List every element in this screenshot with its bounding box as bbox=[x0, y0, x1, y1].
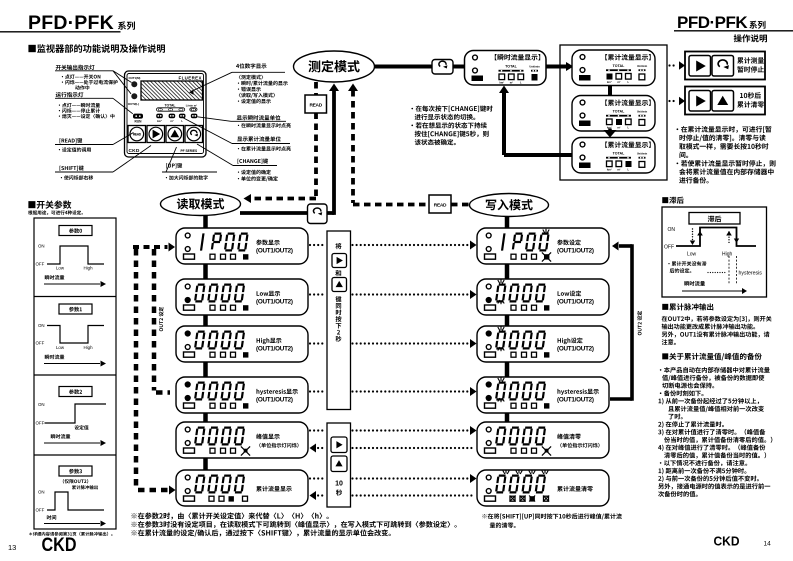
device key CHANGE bbox=[185, 126, 203, 143]
svg-text:km³: km³ bbox=[607, 168, 612, 172]
svg-text:m³: m³ bbox=[170, 119, 173, 123]
text 根据用途，可进行4种设定。 bbox=[28, 210, 83, 215]
callout READ key bbox=[55, 144, 113, 146]
text 累计流量显示 bbox=[256, 486, 292, 492]
svg-text:14: 14 bbox=[764, 541, 772, 548]
ellipse write mode bbox=[470, 194, 549, 217]
text 2) 与前一次备份的5分钟后 bbox=[658, 475, 759, 482]
svg-text:(OUT1/OUT2): (OUT1/OUT2) bbox=[256, 397, 293, 404]
device total indicator bar bbox=[157, 108, 185, 111]
param1 title box bbox=[59, 304, 92, 314]
text 瞬时流量 bbox=[684, 281, 705, 286]
text ■开关参数 bbox=[28, 200, 71, 208]
write box peak clear bbox=[477, 422, 609, 458]
text Low设定 bbox=[558, 291, 582, 297]
param2 axis bbox=[44, 442, 100, 444]
dotted arrow to panel1 bbox=[668, 64, 670, 66]
text 次备份时的值。 bbox=[658, 491, 698, 497]
text ·本产品自动在内部存储器中对 bbox=[660, 367, 770, 373]
text 【累计流量显示】 bbox=[605, 142, 650, 148]
text 量的清零。 bbox=[490, 522, 516, 528]
text 进行显示状态的切换。 bbox=[415, 114, 476, 120]
read box low bbox=[176, 279, 308, 315]
hysteresis x axis bbox=[682, 290, 742, 292]
text 10秒后 bbox=[740, 92, 761, 98]
svg-text:OFF: OFF bbox=[36, 341, 45, 346]
text ·闪烁——处于过电流保护 bbox=[62, 80, 118, 85]
text 另外，接通电源时的值表示的是 bbox=[658, 483, 770, 489]
wire total1-total2 bbox=[608, 86, 612, 96]
hysteresis dim lines bbox=[728, 256, 730, 284]
text ·设定值的显示 bbox=[238, 99, 271, 104]
CHANGE box mid bbox=[308, 204, 328, 224]
text 暂时停止 bbox=[737, 66, 764, 72]
text 累计流量清零 bbox=[557, 486, 593, 492]
ellipse read mode bbox=[161, 193, 241, 216]
text ·点灯——瞬时流量 bbox=[59, 103, 100, 108]
svg-text:High: High bbox=[83, 345, 93, 350]
dotted row peak to-read bbox=[313, 447, 315, 449]
svg-text:Low: Low bbox=[56, 266, 65, 271]
wire read box1-box2 bbox=[203, 264, 208, 279]
svg-text:OFF: OFF bbox=[36, 262, 45, 267]
svg-text:TOTAL: TOTAL bbox=[613, 152, 625, 156]
text ·备份时刻如下。 bbox=[660, 390, 704, 396]
svg-text:ON: ON bbox=[38, 244, 45, 249]
text 峰值清零 bbox=[557, 434, 581, 440]
text ·使闪烁部右移 bbox=[61, 175, 93, 180]
param0 title box bbox=[59, 226, 92, 236]
wire write-mode to box1 bbox=[505, 217, 510, 229]
text [UP]键 bbox=[166, 163, 182, 168]
dotted row read-write 2 bbox=[309, 293, 311, 295]
svg-text:(OUT1/OUT2): (OUT1/OUT2) bbox=[557, 248, 594, 255]
text ·错误显示 bbox=[238, 87, 261, 92]
READ box write-side bbox=[429, 195, 451, 213]
svg-text:High: High bbox=[722, 252, 733, 258]
text OUT2 设定 bbox=[637, 311, 642, 335]
svg-text:Unit/min: Unit/min bbox=[529, 65, 540, 69]
text 〈测定模式〉 bbox=[239, 75, 263, 80]
device RUN indicator bbox=[133, 114, 143, 119]
text （单位指示灯闪烁） bbox=[259, 443, 298, 448]
wire write box1-box2 bbox=[505, 264, 510, 279]
text 按 bbox=[336, 316, 342, 322]
text 参数1 bbox=[69, 307, 82, 312]
text 秒 bbox=[336, 336, 342, 342]
text ·单位的变更/确定 bbox=[238, 176, 278, 181]
text 键 bbox=[335, 296, 341, 302]
strip press-2s box bbox=[327, 231, 351, 410]
text hysteresis显示 bbox=[557, 389, 598, 395]
text 清零后的值，累计值备份当时的 bbox=[664, 452, 766, 458]
dotted row total to-write bbox=[309, 477, 311, 479]
text 参数3 bbox=[69, 469, 82, 474]
dotted arrow to panel2 bbox=[668, 100, 670, 102]
write box total clear bbox=[477, 470, 609, 506]
text 将 bbox=[335, 243, 341, 249]
switch param outer box bbox=[34, 218, 116, 529]
read box high bbox=[176, 326, 308, 362]
svg-text:Unit/min: Unit/min bbox=[637, 110, 648, 114]
text ※在将[SHIFT][UP] bbox=[482, 513, 622, 519]
svg-text:m³: m³ bbox=[510, 81, 513, 85]
svg-text:READ: READ bbox=[133, 133, 142, 137]
svg-text:TOTAL: TOTAL bbox=[613, 110, 625, 114]
hysteresis dotted arrow low bbox=[692, 228, 693, 229]
text ·闪烁——停止累计 bbox=[59, 108, 100, 113]
dashed wire write to measure mode bbox=[348, 84, 358, 92]
svg-text:Low: Low bbox=[56, 345, 65, 350]
callout total unit bbox=[232, 143, 290, 145]
text [CHANGE]键 bbox=[238, 158, 269, 163]
text 取模式一样，需要长按10秒时 bbox=[679, 143, 768, 150]
text 秒 bbox=[336, 489, 342, 495]
device unit indicator bar bbox=[190, 108, 197, 111]
wire read box5-box6 bbox=[203, 458, 208, 470]
left header rule bbox=[0, 31, 121, 33]
text 峰值显示 bbox=[256, 434, 279, 440]
dashed OUT2 read loop inner bbox=[152, 249, 157, 391]
text 后的设定。 bbox=[670, 268, 692, 273]
svg-text:RUN: RUN bbox=[135, 120, 143, 124]
text ＊详细内容请参阅第31页（累 bbox=[29, 532, 112, 536]
svg-text:OFF: OFF bbox=[36, 508, 45, 513]
read box peak bbox=[176, 422, 308, 458]
text 该状态被确定。 bbox=[415, 139, 456, 145]
strip key up bbox=[332, 278, 347, 292]
param1 axis bbox=[44, 363, 100, 365]
text ·若在想显示的状态下持续 bbox=[411, 122, 486, 128]
svg-text:READ: READ bbox=[309, 103, 322, 109]
text OUT2 设定 bbox=[159, 307, 164, 331]
text 按住[CHANGE]键5秒， bbox=[415, 131, 489, 138]
text 操作说明 bbox=[734, 34, 767, 42]
text 时间 bbox=[47, 515, 56, 520]
dashed wire measure to read mode bbox=[314, 82, 318, 96]
svg-text:Low: Low bbox=[687, 252, 697, 258]
text 【累计流量显示】 bbox=[605, 100, 650, 106]
svg-text:hysteresis: hysteresis bbox=[739, 271, 763, 277]
text 运行指示灯 bbox=[56, 92, 84, 97]
text 显示瞬时流量单位 bbox=[237, 115, 281, 120]
wire change box to instant box bbox=[452, 65, 465, 69]
text 同 bbox=[336, 303, 341, 309]
param3 waveform bbox=[47, 492, 104, 510]
wire write box2-box3 bbox=[505, 315, 510, 326]
svg-text:TOTAL: TOTAL bbox=[613, 64, 625, 68]
wire OUT2 write loop bbox=[610, 397, 632, 401]
text 切断电源也会保持。 bbox=[662, 382, 714, 388]
svg-text:READ: READ bbox=[434, 203, 447, 209]
device key up-arrow bbox=[166, 126, 184, 143]
wire read-loop solid via CHANGE bbox=[240, 211, 334, 215]
device unit indicators bbox=[156, 114, 163, 119]
text ■累计脉冲输出 bbox=[662, 303, 713, 310]
svg-text:13: 13 bbox=[8, 543, 16, 552]
text 系列 bbox=[118, 21, 135, 30]
text ■关于累计流量值/峰值的备份 bbox=[662, 353, 762, 361]
device outer bezel bbox=[125, 71, 207, 157]
read box param bbox=[176, 228, 308, 264]
svg-text:(OUT1/OUT2): (OUT1/OUT2) bbox=[256, 299, 293, 306]
text 累计测量 bbox=[737, 57, 764, 63]
svg-text:CKD: CKD bbox=[129, 148, 140, 154]
param0 axis bbox=[44, 283, 100, 285]
instant flow display internals bbox=[473, 55, 478, 60]
wire measure to change box bbox=[374, 65, 433, 69]
read box hysteresis bbox=[176, 377, 308, 413]
read box total bbox=[176, 470, 308, 506]
svg-text:(OUT1/OUT2): (OUT1/OUT2) bbox=[557, 346, 594, 353]
text 和 bbox=[335, 270, 341, 276]
wire read box3-box4 bbox=[203, 362, 208, 377]
strip key right bbox=[332, 254, 347, 268]
callout inst unit bbox=[231, 120, 286, 122]
container for total displays bbox=[560, 45, 667, 180]
text 2) 在停止了累计流量时。 bbox=[658, 421, 724, 428]
text 开关输出指示灯 bbox=[56, 65, 95, 70]
svg-text:m³: m³ bbox=[617, 80, 620, 84]
key panel clear bbox=[685, 87, 765, 115]
text ·在累计流量显示时点亮 bbox=[238, 146, 291, 151]
text 另外，OUT1没有累计脉冲输 bbox=[662, 331, 770, 337]
text Low显示 bbox=[257, 291, 281, 296]
svg-text:PFD·PFK: PFD·PFK bbox=[677, 13, 748, 32]
svg-text:PFD·PFK: PFD·PFK bbox=[28, 12, 114, 34]
svg-text:(OUT1/OUT2): (OUT1/OUT2) bbox=[557, 397, 594, 404]
svg-text:Unit/min: Unit/min bbox=[637, 64, 648, 68]
svg-text:TOTAL: TOTAL bbox=[165, 104, 176, 108]
total display box 2 bbox=[572, 96, 655, 132]
callout run-LED bbox=[55, 97, 113, 99]
dashed OUT2 read loop top bbox=[133, 245, 168, 249]
text High设定 bbox=[558, 338, 583, 345]
key panel pause bbox=[685, 52, 765, 80]
svg-text:OUT1(M): OUT1(M) bbox=[129, 76, 141, 80]
param3 title box bbox=[59, 466, 92, 476]
text hysteresis显示 bbox=[256, 389, 297, 395]
hysteresis section box bbox=[662, 207, 767, 297]
wire instant to total1 with arrow bbox=[546, 65, 567, 69]
strip2 key right bbox=[331, 437, 347, 453]
wire total2-total3 arrow bbox=[608, 129, 612, 131]
text ·加大闪烁部的数字 bbox=[166, 175, 208, 180]
text 下 bbox=[336, 323, 342, 328]
text ·在累计流量显示时，可进行[ bbox=[677, 126, 772, 133]
switch param divider2 bbox=[34, 374, 116, 376]
svg-text:OUT2(L): OUT2(L) bbox=[128, 102, 139, 106]
strip 10s box bbox=[327, 423, 351, 507]
text 参数设定 bbox=[557, 240, 581, 246]
strip2 key up bbox=[331, 456, 347, 472]
hysteresis waveform bbox=[676, 228, 756, 247]
svg-text:OFF: OFF bbox=[36, 421, 45, 426]
dotted row read-write 3 bbox=[309, 342, 311, 344]
text 参数0 bbox=[69, 228, 82, 233]
param3 axis bbox=[44, 523, 100, 525]
dashed OUT2 read loop outer bbox=[134, 249, 139, 488]
text 系列 bbox=[749, 21, 765, 29]
text 份当时的值，累计值备份清零后 bbox=[664, 437, 772, 443]
right header rule bbox=[674, 30, 793, 32]
hysteresis up arrow low bbox=[697, 231, 703, 236]
text 【瞬时流量显示】 bbox=[495, 54, 540, 60]
text [SHIFT]键 bbox=[60, 165, 84, 170]
callout UP key bbox=[162, 171, 217, 173]
text 时停止/值的清零]。清零与读 bbox=[679, 134, 765, 141]
text 值/峰值进行备份，被备份的数 bbox=[662, 375, 764, 381]
svg-text:CKD: CKD bbox=[714, 535, 740, 549]
text 瞬时流量 bbox=[45, 355, 65, 360]
text 4) 在对峰值进行了清零时。 bbox=[658, 444, 765, 451]
text 瞬时流量 bbox=[51, 434, 71, 439]
text 滞后 bbox=[708, 216, 722, 223]
svg-text:m³: m³ bbox=[617, 126, 620, 130]
text 3) 在对累计值进行了清零时 bbox=[658, 429, 765, 436]
wire total3 return left bbox=[504, 153, 572, 157]
param0 waveform bbox=[47, 246, 104, 264]
wire write box3-box4 bbox=[505, 362, 510, 377]
dashed OUT2 read loop inner bottom bbox=[156, 390, 170, 395]
svg-text:OFF: OFF bbox=[664, 245, 674, 251]
wire write box4-box5 bbox=[505, 413, 510, 422]
text 时 bbox=[336, 309, 342, 315]
wire read box2-box3 bbox=[203, 315, 208, 326]
callout digits display bbox=[232, 71, 285, 73]
text 参数显示 bbox=[256, 240, 280, 246]
text ■监视器部的功能说明及操作说 bbox=[28, 44, 165, 53]
param1 waveform bbox=[47, 326, 104, 344]
svg-text:km³: km³ bbox=[499, 81, 504, 85]
text 1) 距离前一次备份不满5分 bbox=[659, 468, 747, 475]
param2 waveform bbox=[45, 404, 107, 423]
callout switch-output-LED bbox=[55, 70, 113, 72]
text ·累计开关没有滞 bbox=[668, 261, 706, 266]
text 输出功能更改成累计脉冲输出功 bbox=[662, 324, 755, 330]
ellipse measure mode bbox=[294, 51, 375, 82]
text High显示 bbox=[257, 338, 282, 344]
svg-text:km³: km³ bbox=[607, 80, 612, 84]
write box low set bbox=[477, 279, 609, 315]
text 累计脉冲输出 bbox=[72, 485, 98, 489]
wire read box4-box5 bbox=[203, 413, 208, 422]
text 读取模式 bbox=[177, 198, 224, 209]
text ·点灯——开关ON bbox=[62, 74, 101, 79]
text （仅限OUT2） bbox=[63, 479, 88, 484]
device LED OUT1 bbox=[131, 81, 137, 87]
dotted row read-write 4 bbox=[309, 390, 311, 392]
hysteresis dotted arrow high bbox=[728, 231, 729, 232]
callout CHANGE key bbox=[233, 165, 277, 167]
text 注意。 bbox=[662, 339, 676, 345]
text 进行备份。 bbox=[679, 177, 708, 183]
text 会将累计流量值在内部存储器中 bbox=[679, 168, 773, 174]
text ·设定值的调用 bbox=[59, 147, 91, 152]
write box high set bbox=[477, 326, 609, 362]
device LED OUT2 bbox=[131, 93, 137, 99]
text 了时。 bbox=[669, 414, 683, 420]
hysteresis down arrow high bbox=[734, 239, 739, 244]
text 间。 bbox=[679, 152, 688, 158]
svg-text:L/min m³: L/min m³ bbox=[186, 103, 197, 107]
text [READ]键 bbox=[60, 138, 83, 143]
svg-text:PF SERIES: PF SERIES bbox=[181, 149, 198, 153]
text ■滞后 bbox=[662, 197, 684, 204]
svg-text:ON: ON bbox=[38, 323, 45, 328]
switch param divider1 bbox=[34, 296, 116, 298]
svg-text:ON: ON bbox=[38, 402, 45, 407]
text 1) 从前一次备份起经过了5 bbox=[659, 398, 760, 405]
dotted row total to-read bbox=[313, 494, 315, 496]
svg-text:Unit/min: Unit/min bbox=[637, 152, 648, 156]
dashed OUT2 read loop outer bottom bbox=[138, 488, 169, 493]
param2 title box bbox=[59, 387, 92, 397]
svg-text:TOTAL: TOTAL bbox=[505, 65, 517, 69]
svg-text:ON: ON bbox=[38, 490, 45, 495]
READ box read-side bbox=[305, 95, 327, 113]
text 测定模式 bbox=[308, 60, 359, 72]
text 动作中 bbox=[75, 85, 89, 90]
svg-text:FLUEREX: FLUEREX bbox=[179, 76, 202, 81]
text 参数2 bbox=[69, 389, 82, 394]
hysteresis title box bbox=[689, 213, 740, 225]
text ·瞬时/累计流量的显示 bbox=[238, 81, 288, 86]
text ※在参数3时没有设定项目，在 bbox=[131, 521, 456, 528]
text ·设定值的确定 bbox=[238, 170, 271, 175]
svg-text:km³: km³ bbox=[157, 119, 162, 123]
text ※在累计流量的设定/确认后， bbox=[131, 529, 390, 536]
text ·熄灭——设定〈确认〉中 bbox=[59, 114, 115, 119]
text 设定值 bbox=[74, 425, 88, 430]
CHANGE box top bbox=[432, 60, 453, 75]
svg-text:CKD: CKD bbox=[42, 535, 77, 556]
text 且累计流量值/峰值相对前一次 bbox=[668, 406, 764, 413]
text （单位指示灯闪烁） bbox=[560, 443, 599, 448]
text ·以下情况不进行备份，请注意 bbox=[660, 460, 747, 466]
device inner bezel bbox=[127, 74, 204, 154]
device key right-arrow bbox=[147, 126, 165, 143]
text ※在参数2时，由〈累计开关设 bbox=[131, 512, 328, 519]
text 4位数字显示 bbox=[236, 63, 266, 68]
text 显示累计流量单位 bbox=[237, 136, 281, 141]
svg-text:m³: m³ bbox=[617, 168, 620, 172]
dotted row read-write 1 bbox=[309, 244, 311, 246]
dotted row peak to-write bbox=[309, 429, 311, 431]
text ·若使累计流量显示暂时停止， bbox=[677, 160, 776, 167]
svg-text:ON: ON bbox=[668, 227, 676, 233]
wire read-mode to box1 bbox=[203, 216, 208, 229]
text 在OUT2中，若将参数设定为 bbox=[662, 316, 772, 322]
callout SHIFT key bbox=[55, 171, 113, 173]
text 【累计流量显示】 bbox=[605, 54, 650, 60]
text 〈读取/写入模式〉 bbox=[239, 93, 275, 98]
text 累计清零 bbox=[737, 101, 764, 107]
text ·在每次按下[CHANGE] bbox=[411, 105, 492, 112]
text ·在瞬时流量显示时点亮 bbox=[238, 123, 291, 128]
device key READ bbox=[128, 126, 146, 143]
total display box 1 bbox=[572, 50, 655, 86]
total display box 3 bbox=[572, 138, 655, 174]
svg-text:(OUT1/OUT2): (OUT1/OUT2) bbox=[256, 346, 293, 353]
text 2 bbox=[337, 330, 340, 335]
write box param set bbox=[477, 228, 609, 264]
switch param divider3 bbox=[34, 454, 116, 456]
svg-text:(OUT1/OUT2): (OUT1/OUT2) bbox=[557, 299, 594, 306]
text 写入模式 bbox=[486, 199, 533, 210]
svg-text:High: High bbox=[83, 266, 93, 271]
instant flow display box bbox=[465, 51, 547, 86]
